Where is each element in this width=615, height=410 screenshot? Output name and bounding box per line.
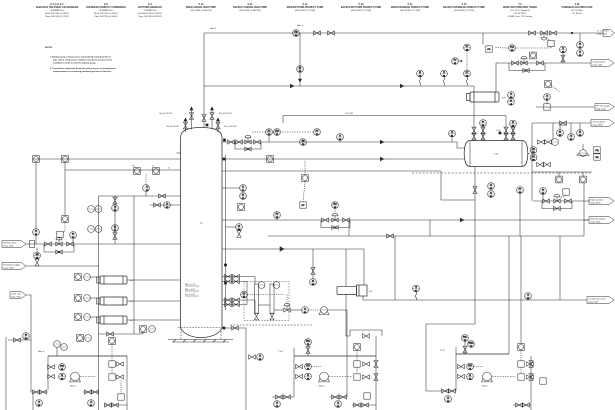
svg-text:25 BBL Tray, 715 Traction: 25 BBL Tray, 715 Traction bbox=[508, 15, 533, 18]
bottoms pipe y=220 bbox=[222, 219, 589, 221]
signal square upper bbox=[302, 161, 309, 181]
tower nozzle tick bbox=[177, 152, 181, 154]
drop continues to steam line bbox=[35, 235, 37, 244]
accumulator spare nozzle riser bbox=[512, 127, 514, 141]
dashed link bbox=[80, 376, 96, 378]
FY circle bbox=[314, 129, 321, 137]
condenser E-8 body bbox=[467, 92, 500, 102]
reboiler return drop bbox=[345, 294, 347, 330]
reflux pipe to tower bbox=[222, 141, 457, 143]
flag to flare bbox=[597, 29, 615, 36]
svg-text:FEED HEAT RECOVERY EXCHANGERS: FEED HEAT RECOVERY EXCHANGERS bbox=[36, 6, 79, 9]
riser bend bbox=[441, 171, 475, 200]
PI circle left of station bbox=[540, 188, 547, 201]
TIC square right of E-8 bbox=[545, 81, 560, 92]
accumulator V-16 shell bbox=[464, 141, 528, 167]
station block valve bbox=[565, 199, 572, 203]
svg-text:2": 2" bbox=[168, 168, 170, 170]
svg-text:Dwg. 1104: Dwg. 1104 bbox=[593, 65, 604, 67]
cooling water supply pipe bbox=[496, 62, 591, 64]
pressure control valve on flare line bbox=[541, 31, 548, 40]
header riser tag bbox=[278, 348, 294, 356]
svg-text:PDI: PDI bbox=[468, 365, 472, 367]
mid drop bbox=[330, 356, 347, 408]
flag feedstock supply bbox=[2, 263, 26, 270]
FT instrument circle bbox=[274, 212, 281, 220]
station block valve bbox=[543, 199, 550, 203]
svg-text:PDI: PDI bbox=[306, 365, 310, 367]
bypass valve bbox=[554, 206, 561, 210]
exchanger E-5 body bbox=[97, 276, 127, 284]
svg-text:BACKUP BOTTOMS PRODUCT PUMP: BACKUP BOTTOMS PRODUCT PUMP bbox=[341, 6, 382, 9]
bottom squares bbox=[352, 393, 376, 407]
TI square pair upper bbox=[152, 166, 159, 175]
flag cooling water supply bbox=[591, 60, 614, 67]
pressure instrument square PIC bbox=[486, 46, 492, 52]
bypass loop bbox=[321, 220, 350, 228]
svg-text:Condensate return: Condensate return bbox=[589, 297, 607, 300]
LC circle bbox=[241, 291, 287, 304]
mid sub-cluster bbox=[83, 390, 99, 407]
svg-text:Note 1: Note 1 bbox=[482, 385, 489, 388]
svg-text:DP 50 PSIG: DP 50 PSIG bbox=[571, 10, 583, 12]
svg-text:Cond. feed: Cond. feed bbox=[11, 293, 22, 295]
svg-text:Dwg. 2004: Dwg. 2004 bbox=[4, 268, 15, 270]
svg-text:PDI: PDI bbox=[60, 366, 64, 368]
vertical PSV valve on overhead riser bbox=[202, 115, 206, 122]
svg-text:MS PG steam: MS PG steam bbox=[4, 241, 17, 244]
nozzle dot on dome bbox=[206, 124, 208, 126]
SC circle on feed bbox=[34, 248, 41, 266]
hookup vertical x=115 bbox=[112, 196, 119, 244]
slops pipe y=201 bbox=[533, 200, 590, 202]
svg-text:Dwg. 1100: Dwg. 1100 bbox=[596, 109, 607, 111]
instrument circle pair FT/FIC bbox=[266, 129, 281, 142]
svg-text:To T-17 flare: To T-17 flare bbox=[597, 29, 609, 32]
svg-text:MAIN OVERHEAD PRODUCT PUMP: MAIN OVERHEAD PRODUCT PUMP bbox=[391, 6, 430, 9]
svg-text:(450 GPM @ 70 PSI): (450 GPM @ 70 PSI) bbox=[295, 10, 316, 12]
svg-text:P-13: P-13 bbox=[359, 4, 365, 6]
E-6 outlet to tower bbox=[127, 300, 181, 302]
TI circle bbox=[143, 185, 150, 193]
svg-text:Cooling water: Cooling water bbox=[593, 60, 606, 63]
outlet header y=334 bbox=[99, 333, 144, 335]
standpipe beside tower bbox=[225, 155, 227, 310]
svg-text:Set @ 55 PSI: Set @ 55 PSI bbox=[219, 112, 232, 115]
svg-text:(200 GPM @ 75 PSI): (200 GPM @ 75 PSI) bbox=[400, 10, 421, 12]
seal circle 2 on overhead line bbox=[441, 70, 448, 85]
stub pipe y=196 bbox=[99, 191, 181, 196]
header T-2 tower bbox=[503, 4, 537, 18]
svg-text:LG: LG bbox=[532, 149, 535, 151]
CW control valve bbox=[521, 56, 527, 65]
header E-5/6/7 exchangers bbox=[36, 4, 79, 18]
reboiler inlet branch bbox=[345, 249, 347, 286]
bottoms pipe into flag bbox=[584, 219, 589, 221]
CV station block valve bbox=[343, 218, 350, 222]
valve on flare header bbox=[328, 31, 335, 35]
svg-text:DP 50 PSIG: DP 50 PSIG bbox=[514, 13, 526, 15]
header E-9 reboiler bbox=[138, 4, 162, 18]
CW bypass loop bbox=[509, 63, 545, 71]
svg-text:Dwg. 6004: Dwg. 6004 bbox=[597, 34, 608, 36]
E-7 outlet to tower bbox=[127, 319, 181, 321]
accumulator PSV nozzle riser bbox=[505, 116, 507, 141]
left drop bbox=[426, 354, 456, 403]
PY square bbox=[546, 39, 554, 47]
TIC square on drop bbox=[62, 216, 69, 223]
jog to pump suction bbox=[426, 324, 475, 391]
header P-10 bbox=[186, 4, 216, 12]
dashed drop from TIC bbox=[145, 174, 147, 184]
nozzle dot bbox=[224, 264, 226, 266]
svg-text:Shell 450 PSIG @ 650°F: Shell 450 PSIG @ 650°F bbox=[45, 13, 69, 15]
svg-text:MAIN CHARGE FEED PUMP: MAIN CHARGE FEED PUMP bbox=[186, 6, 216, 9]
left drop bbox=[272, 356, 294, 408]
level gauge circles at drum end bbox=[530, 147, 537, 162]
seal circle on condensate line bbox=[413, 285, 420, 300]
flow arrow overhead bbox=[290, 84, 294, 88]
header P-12 bbox=[287, 4, 324, 12]
svg-text:Dwg. 1007: Dwg. 1007 bbox=[4, 246, 15, 248]
svg-text:P-11: P-11 bbox=[248, 4, 253, 6]
hot vapor bypass pipe bbox=[283, 113, 506, 123]
suction row 1 bbox=[48, 356, 66, 390]
drop from second square bbox=[64, 162, 66, 215]
steam block valve bbox=[67, 242, 74, 246]
nozzle flange dot bbox=[499, 132, 501, 134]
dashed signal from positioner bbox=[252, 131, 313, 133]
svg-text:BACKUP CHARGE FEED PUMP: BACKUP CHARGE FEED PUMP bbox=[233, 6, 267, 9]
suction header bbox=[48, 355, 127, 357]
svg-text:Note 2: Note 2 bbox=[297, 24, 304, 27]
svg-text:PC: PC bbox=[488, 49, 491, 51]
svg-text:FQ: FQ bbox=[596, 150, 599, 152]
LV outlet pipe to pumps bbox=[308, 310, 347, 356]
bottom valve row bbox=[104, 403, 127, 407]
CW bypass globe valve bbox=[523, 69, 529, 73]
analyzer riser bbox=[583, 183, 585, 236]
circle near standpipe bbox=[226, 224, 243, 238]
drop from feed square bbox=[35, 162, 37, 228]
flow arrow on riser bbox=[299, 79, 302, 82]
svg-text:75 MMBTU/hr: 75 MMBTU/hr bbox=[143, 10, 157, 12]
TI circle pair right of tower bbox=[222, 185, 246, 201]
instrument circles on exchanger header bbox=[88, 206, 102, 233]
overhead product pipe bbox=[532, 122, 591, 124]
vertical feed to station 3 bbox=[508, 236, 510, 354]
steam pipe from flag bbox=[26, 243, 181, 245]
TIC square pair upper bbox=[132, 166, 140, 175]
riser to TI bbox=[546, 100, 548, 103]
svg-text:V-16: V-16 bbox=[575, 4, 580, 6]
tower level labels bbox=[185, 284, 199, 296]
header P-13 bbox=[341, 4, 382, 12]
instrument circle TI bbox=[544, 94, 551, 102]
TI squares row E-7 bbox=[75, 314, 97, 321]
svg-text:PIC: PIC bbox=[510, 47, 514, 49]
bypass globe valve bbox=[245, 147, 251, 151]
svg-text:Slops product: Slops product bbox=[591, 198, 604, 201]
bypass globe valve bbox=[332, 226, 338, 230]
PIC circle bbox=[496, 45, 552, 53]
instrument circle on drum nozzle riser bbox=[510, 120, 517, 128]
valve pair near drum end bbox=[538, 123, 559, 145]
level instrument circle pair bbox=[488, 183, 495, 199]
bridge verticals bbox=[247, 277, 255, 314]
reflux control valve bbox=[245, 135, 251, 144]
flag HP cooling water bbox=[595, 104, 614, 111]
squares pair top left bbox=[77, 335, 92, 342]
svg-text:HLL = 7'-6": HLL = 7'-6" bbox=[185, 284, 196, 286]
nozzle dot tower right y159 bbox=[223, 158, 225, 160]
svg-text:Tube 450 PSIG @ 750°F: Tube 450 PSIG @ 750°F bbox=[45, 16, 69, 18]
condensate return pipe bbox=[363, 296, 587, 300]
svg-text:Tube 150 PSIG @ 400°F: Tube 150 PSIG @ 400°F bbox=[94, 16, 118, 18]
svg-text:Bottoms product: Bottoms product bbox=[591, 217, 607, 220]
suction header bbox=[294, 355, 376, 357]
flow meter body on analyzer line bbox=[577, 144, 589, 156]
svg-text:Note 5: Note 5 bbox=[38, 350, 45, 353]
drop to accumulator end bbox=[457, 142, 465, 148]
bypass drop right bbox=[429, 220, 431, 236]
reboiler feed pipe y=249 bbox=[222, 249, 364, 285]
svg-text:P-12: P-12 bbox=[303, 4, 309, 6]
PSV stub left bbox=[189, 107, 193, 130]
drop from bracket to station2 column bbox=[375, 336, 377, 356]
drain valve under drum end bbox=[537, 162, 551, 166]
bottom squares bbox=[513, 378, 546, 407]
upper level taps bbox=[222, 274, 255, 283]
standpipe gauge 2 bbox=[259, 282, 280, 320]
condensate line from flag y=295 bbox=[26, 295, 31, 392]
svg-text:Shell 600 PSIG @ 650°F: Shell 600 PSIG @ 650°F bbox=[138, 13, 162, 15]
PSV stub far right bbox=[216, 118, 220, 132]
pump P-12 bbox=[319, 372, 330, 387]
hookup vertical x=134 bbox=[133, 196, 135, 334]
PSL circles above header bbox=[54, 341, 68, 356]
riser to PIC on flare line bbox=[482, 33, 484, 44]
tower overhead riser bbox=[203, 33, 205, 128]
station bypass loop bbox=[542, 201, 572, 209]
svg-text:Dwg. 9004: Dwg. 9004 bbox=[593, 125, 604, 127]
svg-text:condition in order to start th: condition in order to start the backup p… bbox=[53, 61, 96, 64]
flow element square on feed bbox=[62, 156, 69, 163]
signal square lower bbox=[300, 181, 306, 208]
svg-text:NOTES: NOTES bbox=[45, 47, 53, 49]
svg-text:(140 GPM @ 480 PSI): (140 GPM @ 480 PSI) bbox=[239, 10, 261, 12]
instrument circle on accumulator nozzle bbox=[480, 120, 487, 128]
seal circle 1 on overhead line bbox=[417, 70, 424, 85]
flow element square on feed bbox=[33, 156, 40, 163]
svg-text:Dwg. 7004: Dwg. 7004 bbox=[11, 297, 22, 299]
PSV stub far left bbox=[183, 118, 187, 132]
tower T-2 shell bbox=[181, 128, 223, 338]
svg-text:4"-P-101: 4"-P-101 bbox=[345, 113, 354, 115]
valve on stub bbox=[154, 203, 161, 207]
reboiler E-9 body bbox=[337, 285, 367, 296]
instrument circle below product line bbox=[557, 123, 564, 137]
drop to station 2 bbox=[346, 330, 350, 336]
feed pipe y=159 left bbox=[33, 158, 181, 160]
instrument circle on flare riser bbox=[297, 66, 304, 74]
PT circle above overhead line bbox=[464, 44, 471, 70]
svg-text:40 MMBTU/hr: 40 MMBTU/hr bbox=[50, 10, 64, 12]
suction row 2 valves bbox=[458, 373, 474, 381]
svg-text:BOTTOMS REBOILER: BOTTOMS REBOILER bbox=[138, 7, 162, 9]
set pressure labels bbox=[159, 112, 237, 128]
suction row 2 valves bbox=[296, 373, 312, 381]
svg-text:Ovhd product: Ovhd product bbox=[593, 120, 606, 123]
svg-text:P-10: P-10 bbox=[199, 4, 205, 6]
nozzle dot at tower bbox=[223, 139, 225, 141]
vertical from y=236 to condensate line bbox=[394, 236, 396, 300]
product riser from pumps bbox=[531, 123, 533, 201]
header riser tag bbox=[440, 347, 456, 354]
svg-text:HP CW supply: HP CW supply bbox=[596, 105, 610, 107]
FO square bbox=[530, 52, 537, 59]
riser from overhead line to flare header bbox=[299, 33, 301, 86]
valve on outlet header bbox=[107, 332, 114, 336]
left sub-cluster bbox=[31, 390, 48, 410]
nozzle dot bottoms bbox=[223, 327, 225, 329]
flow arrow reflux bbox=[380, 140, 384, 144]
svg-text:Feedstock supply: Feedstock supply bbox=[4, 263, 21, 266]
exchanger E-6 body bbox=[97, 297, 127, 305]
tower skirt bbox=[168, 328, 233, 343]
svg-text:Note 1: Note 1 bbox=[319, 385, 326, 388]
instrument circle on reflux line bbox=[337, 134, 344, 142]
valve in bracket bbox=[363, 334, 370, 338]
flow arrow bottoms bbox=[460, 218, 464, 222]
pump P-14 bbox=[482, 372, 493, 387]
square with circle right of tower bbox=[238, 204, 245, 211]
valve on flare header bbox=[314, 31, 321, 35]
E-8 outlet instrument circles bbox=[508, 92, 515, 106]
svg-text:Set @ 50 PSI: Set @ 50 PSI bbox=[224, 125, 237, 128]
feed line from flag y=266 bbox=[26, 265, 99, 267]
inline instrument square on feed pipe bbox=[267, 156, 274, 163]
analyzer station square bbox=[580, 172, 587, 183]
CW riser instrument bbox=[560, 46, 567, 63]
LV control valve bbox=[274, 303, 302, 312]
flag bottoms product bbox=[589, 217, 614, 224]
header P-15 bbox=[443, 4, 485, 12]
svg-text:NLL = 5'-0": NLL = 5'-0" bbox=[185, 289, 196, 291]
totalizer squares bbox=[594, 147, 600, 160]
PSL circle above header bbox=[462, 335, 475, 354]
reflux CV station valve bbox=[254, 140, 261, 144]
svg-text:Tube 150 PSIG @ 650°F: Tube 150 PSIG @ 650°F bbox=[138, 16, 162, 18]
flow arrows on reboiler feed bbox=[280, 247, 284, 251]
PI circle on drop bbox=[33, 229, 40, 237]
bypass bracket below E-9 bbox=[350, 330, 382, 336]
flow element square bbox=[544, 104, 550, 110]
flag condensate feed bbox=[10, 292, 26, 299]
svg-text:legs, where self pressure swit: legs, where self pressure switches low d… bbox=[53, 58, 113, 61]
steam bypass loop bbox=[44, 244, 74, 252]
stub pipe y=205 bbox=[150, 204, 181, 206]
PY circle with arrow bbox=[452, 58, 463, 66]
drum outlet drop bbox=[474, 167, 476, 325]
svg-text:Dwg. 9004: Dwg. 9004 bbox=[591, 222, 602, 224]
flag MS PG steam bbox=[2, 241, 26, 248]
bottoms outlet pipe bbox=[222, 328, 246, 410]
svg-text:compensation for measuring ove: compensation for measuring overhead gas … bbox=[53, 70, 112, 73]
header P-14 bbox=[391, 3, 430, 12]
PSV stub right bbox=[210, 107, 214, 130]
TI circle at tower shell left bbox=[164, 202, 171, 210]
E-8 outlet to accumulator bbox=[473, 102, 475, 141]
flow arrow feed bbox=[380, 157, 384, 161]
TI squares row E-5 bbox=[75, 274, 97, 281]
instrument circle at drum inlet bbox=[449, 130, 456, 142]
exchanger feed header vertical bbox=[98, 196, 100, 410]
vertical valves on nozzle bbox=[481, 127, 485, 140]
E-8 inlet top riser from CW line bbox=[495, 63, 497, 92]
dashed link to right column bbox=[492, 376, 516, 378]
dashed link to right column bbox=[329, 376, 352, 378]
valve at flare tie-in bbox=[529, 31, 536, 35]
E-5 outlet to tower bbox=[127, 279, 181, 281]
CV station control valve bbox=[332, 213, 338, 222]
circle with volute bbox=[319, 307, 329, 315]
long pipe y=236 bbox=[268, 235, 584, 237]
svg-text:2"x3": 2"x3" bbox=[278, 351, 283, 353]
valve on y=340 bbox=[14, 338, 21, 342]
positioner square bbox=[560, 189, 569, 198]
pipe y=171 bbox=[222, 170, 441, 172]
steam block valve bbox=[45, 242, 52, 246]
valve on lower pipe bbox=[387, 234, 394, 238]
suction row 1 valves bbox=[296, 363, 321, 371]
vertical valve on drum outlet bbox=[473, 187, 477, 194]
svg-text:OVERHEAD ACCUMULATOR: OVERHEAD ACCUMULATOR bbox=[562, 6, 593, 9]
seal circle 3 on overhead line bbox=[464, 70, 471, 85]
svg-text:P-14: P-14 bbox=[408, 3, 414, 6]
bottoms valve bbox=[232, 326, 239, 330]
discharge column bbox=[374, 356, 378, 410]
PSL circle above header bbox=[305, 339, 312, 356]
drop into condenser E-8 bbox=[473, 86, 475, 92]
svg-text:E-5, E-6, E-7: E-5, E-6, E-7 bbox=[50, 4, 64, 6]
dashed utility line under drum bbox=[412, 172, 592, 174]
block valve at tower bbox=[228, 140, 235, 144]
header E-8 condenser bbox=[86, 4, 126, 18]
svg-text:2"x3": 2"x3" bbox=[440, 350, 445, 352]
svg-text:Note 3: Note 3 bbox=[210, 27, 217, 30]
svg-text:(450 GPM @ 70 PSI): (450 GPM @ 70 PSI) bbox=[351, 10, 372, 12]
PI circle above steam valve bbox=[70, 232, 77, 244]
squares column bbox=[109, 338, 124, 394]
instrument circle on flare header bbox=[293, 30, 300, 38]
bottom square bbox=[118, 394, 124, 400]
svg-text:P-15: P-15 bbox=[462, 4, 468, 6]
valve at flare tie-in bbox=[550, 31, 557, 35]
flare header pipe bbox=[204, 32, 603, 34]
steam bypass globe bbox=[56, 250, 62, 254]
drop to condensate header bbox=[559, 236, 561, 300]
sheet edge vertical bbox=[5, 337, 7, 410]
right column squares bbox=[354, 344, 370, 381]
svg-text:MAIN BOTTOMS PRODUCT PUMP: MAIN BOTTOMS PRODUCT PUMP bbox=[287, 6, 324, 9]
pipe y=340 left edge bbox=[8, 339, 31, 341]
svg-text:Note 1: Note 1 bbox=[70, 385, 77, 388]
lower level taps bbox=[222, 298, 255, 307]
discharge column bbox=[529, 356, 533, 410]
svg-text:TIC: TIC bbox=[132, 166, 136, 168]
positioner square bbox=[57, 231, 63, 240]
